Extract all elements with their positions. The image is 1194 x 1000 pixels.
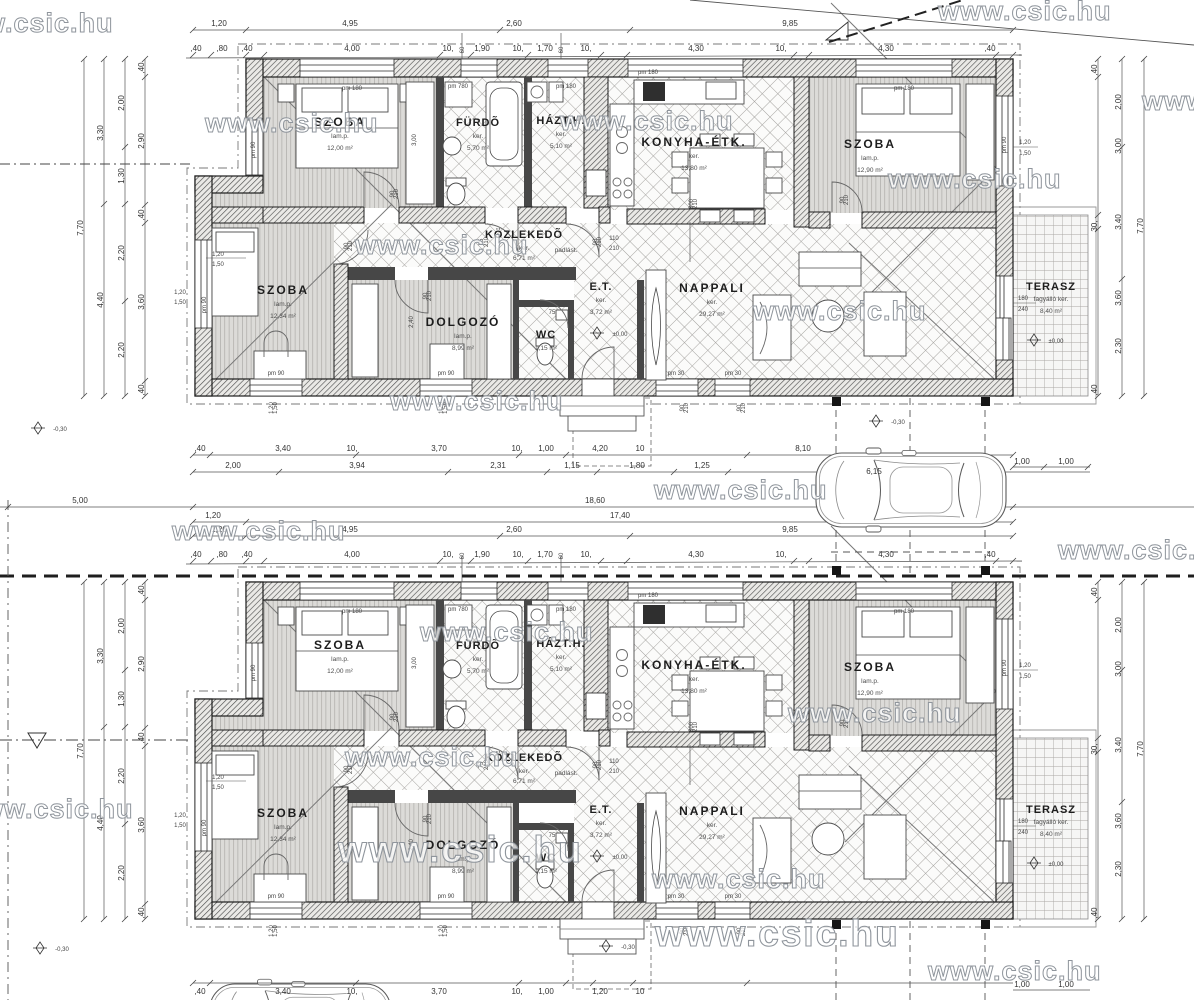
level marks (590, 327, 604, 339)
svg-text:3,00: 3,00 (1114, 138, 1123, 154)
svg-text:pm 30: pm 30 (725, 371, 742, 377)
furniture: bedroom 1 (296, 84, 398, 168)
svg-text:210: 210 (427, 290, 433, 301)
carport (831, 398, 990, 575)
svg-text:210: 210 (348, 240, 354, 251)
svg-text:10,: 10, (512, 44, 523, 53)
svg-text:pm 780: pm 780 (448, 84, 469, 90)
svg-text:www.csic.hu: www.csic.hu (651, 864, 826, 894)
svg-text:pm 90: pm 90 (202, 296, 208, 313)
exterior walls (246, 59, 1013, 77)
svg-text:17,40: 17,40 (610, 511, 631, 520)
svg-text:3,00: 3,00 (412, 134, 418, 146)
svg-text:ker.: ker. (707, 299, 718, 306)
svg-text:±0,00: ±0,00 (613, 332, 629, 338)
svg-text:1,50: 1,50 (1019, 151, 1031, 157)
svg-text:2,20: 2,20 (117, 245, 126, 261)
furniture: bedroom 3 (212, 228, 258, 316)
windows: right wall (996, 96, 1013, 186)
svg-text:w.csic.hu: w.csic.hu (0, 8, 114, 38)
bottom partial car (210, 979, 391, 1000)
site line top-left (0, 163, 193, 165)
svg-text:7,70: 7,70 (76, 220, 85, 236)
svg-text:NAPPALI: NAPPALI (679, 281, 745, 295)
svg-text:ker.: ker. (596, 297, 607, 304)
svg-text:KONYHA-ÉTK.: KONYHA-ÉTK. (641, 134, 746, 149)
svg-text:10,: 10, (346, 987, 357, 996)
svg-text:3,40: 3,40 (275, 987, 291, 996)
entry porch dashed outline (573, 398, 651, 466)
svg-text:-0,30: -0,30 (53, 427, 67, 433)
carport below bottom unit (836, 921, 985, 1000)
svg-text:1,50: 1,50 (174, 300, 186, 306)
svg-text:110: 110 (609, 236, 619, 242)
svg-text:12,00 m²: 12,00 m² (327, 145, 353, 152)
svg-text:210: 210 (597, 236, 603, 247)
svg-text:5,70 m²: 5,70 m² (467, 145, 490, 152)
svg-text:pm 30: pm 30 (668, 371, 685, 377)
svg-text:210: 210 (741, 402, 747, 413)
svg-text:3,40: 3,40 (1114, 214, 1123, 230)
furniture: wc (536, 338, 554, 346)
svg-text:2,60: 2,60 (506, 19, 522, 28)
svg-text:pm 180: pm 180 (638, 70, 659, 76)
svg-text:30,: 30, (1090, 220, 1099, 231)
svg-text:www.csic.hu: www.csic.hu (1141, 86, 1194, 116)
eave outline (187, 44, 1020, 404)
svg-text:1,15: 1,15 (564, 461, 580, 470)
svg-text:SZOBA: SZOBA (257, 283, 309, 297)
svg-text:7,70: 7,70 (1136, 218, 1145, 234)
furniture: dolgozo (352, 284, 378, 377)
svg-text:8,10: 8,10 (795, 444, 811, 453)
svg-text:,40: ,40 (194, 444, 206, 453)
svg-text:10,: 10, (442, 44, 453, 53)
roof diagonals (248, 61, 575, 388)
svg-text:,80: ,80 (216, 44, 228, 53)
svg-text:-0,30: -0,30 (891, 420, 905, 426)
svg-text:www.csic.hu: www.csic.hu (752, 296, 927, 326)
svg-text:210: 210 (844, 194, 850, 205)
svg-text:,40: ,40 (1090, 384, 1099, 396)
svg-text:,40: ,40 (137, 209, 146, 221)
svg-text:1,20: 1,20 (212, 252, 224, 258)
svg-text:4,95: 4,95 (342, 19, 358, 28)
svg-text:2,00: 2,00 (117, 95, 126, 111)
svg-text:,40: ,40 (984, 44, 996, 53)
svg-text:padlást.: padlást. (555, 247, 578, 254)
svg-text:±0,00: ±0,00 (1049, 339, 1065, 345)
svg-text:180: 180 (1018, 296, 1029, 302)
svg-text:FÜRDÕ: FÜRDÕ (456, 116, 500, 129)
windows: top wall (195, 59, 1013, 396)
svg-text:10,: 10, (775, 44, 786, 53)
svg-text:TERASZ: TERASZ (1026, 281, 1076, 293)
svg-text:pm 90: pm 90 (268, 371, 285, 377)
svg-text:1,00: 1,00 (538, 987, 554, 996)
furniture: hazt (527, 82, 547, 102)
svg-text:pm 90: pm 90 (251, 141, 257, 158)
svg-text:10,: 10, (511, 987, 522, 996)
svg-text:pm 90: pm 90 (1002, 136, 1008, 153)
svg-text:9,85: 9,85 (782, 19, 798, 28)
svg-text:1,20: 1,20 (174, 290, 186, 296)
svg-text:SZOBA: SZOBA (844, 137, 896, 151)
svg-text:3,72 m²: 3,72 m² (590, 309, 613, 316)
svg-text:1,20: 1,20 (211, 19, 227, 28)
svg-text:pm 180: pm 180 (342, 86, 363, 92)
svg-text:3,94: 3,94 (349, 461, 365, 470)
section line A with triangle (0, 739, 190, 741)
svg-text:,40: ,40 (1090, 64, 1099, 76)
svg-text:pm 90: pm 90 (438, 371, 455, 377)
svg-text:1,00: 1,00 (1014, 457, 1030, 466)
top dimension rows (186, 30, 1022, 58)
svg-text:13,80 m²: 13,80 m² (681, 165, 707, 172)
furniture: kitchen (634, 80, 744, 104)
svg-text:,40: ,40 (190, 44, 202, 53)
UNIT PLAN GROUP (placeholder, filled below) (76, 3, 1147, 466)
svg-text:1,25: 1,25 (694, 461, 710, 470)
right dimension chains (1098, 59, 1144, 396)
svg-text:29,27 m²: 29,27 m² (699, 311, 725, 318)
svg-text:fagyálló ker.: fagyálló ker. (1034, 296, 1069, 303)
bottom page dimension row (193, 982, 1013, 984)
entry steps (560, 396, 644, 416)
svg-text:pm 180: pm 180 (894, 86, 915, 92)
svg-text:2,20: 2,20 (117, 342, 126, 358)
svg-text:3,70: 3,70 (431, 444, 447, 453)
svg-text:1,00: 1,00 (1058, 457, 1074, 466)
svg-text:2,90: 2,90 (137, 133, 146, 149)
svg-text:ker.: ker. (473, 133, 484, 140)
svg-text:,40: ,40 (241, 44, 253, 53)
car between units (816, 448, 1006, 532)
svg-text:8,40 m²: 8,40 m² (1040, 308, 1063, 315)
svg-text:www.csic.hu: www.csic.hu (1057, 535, 1194, 565)
svg-text:10,: 10, (580, 44, 591, 53)
furniture: living room (646, 270, 666, 380)
svg-text:-0,30: -0,30 (621, 945, 635, 951)
svg-text:lam.p.: lam.p. (274, 301, 292, 308)
svg-text:1,50: 1,50 (212, 262, 224, 268)
svg-text:1,20: 1,20 (1019, 140, 1031, 146)
svg-text:240: 240 (1018, 307, 1029, 313)
svg-text:3,70: 3,70 (431, 987, 447, 996)
svg-text:www.csic.hu: www.csic.hu (927, 956, 1102, 986)
svg-text:4,30: 4,30 (878, 44, 894, 53)
svg-text:8,99 m²: 8,99 m² (452, 345, 475, 352)
svg-text:12,34 m²: 12,34 m² (270, 313, 296, 320)
door arcs (364, 172, 399, 207)
svg-text:WC: WC (536, 329, 556, 341)
svg-text:210: 210 (693, 198, 699, 209)
svg-text:www.csic.hu: www.csic.hu (354, 230, 529, 260)
svg-text:-0,30: -0,30 (55, 947, 69, 953)
svg-text:2,31: 2,31 (490, 461, 506, 470)
svg-text:1,70: 1,70 (537, 44, 553, 53)
svg-text:www.csic.hu: www.csic.hu (559, 106, 734, 136)
svg-text:www.csic.hu: www.csic.hu (0, 794, 134, 824)
svg-text:lam.p.: lam.p. (454, 333, 472, 340)
svg-text:ker.: ker. (689, 153, 700, 160)
svg-text:www.csic.hu: www.csic.hu (887, 164, 1062, 194)
svg-text:,40: ,40 (137, 62, 146, 74)
svg-text:5,00: 5,00 (72, 496, 88, 505)
svg-text:E.T.: E.T. (590, 281, 613, 293)
svg-text:www.csic.hu: www.csic.hu (171, 516, 346, 546)
left site vertical dashed (7, 500, 9, 1000)
svg-text:www.csic.hu: www.csic.hu (787, 698, 962, 728)
svg-text:5,10 m²: 5,10 m² (550, 143, 573, 150)
svg-text:12,90 m²: 12,90 m² (857, 167, 883, 174)
svg-text:www.csic.hu: www.csic.hu (204, 108, 379, 138)
site diagonal top-right (690, 0, 1194, 45)
svg-text:3,60: 3,60 (137, 294, 146, 310)
svg-text:3,40: 3,40 (275, 444, 291, 453)
svg-text:18,60: 18,60 (585, 496, 606, 505)
windows: left walls (246, 120, 263, 175)
svg-text:www.csic.hu: www.csic.hu (337, 829, 583, 870)
roof arrow triangle (826, 22, 848, 40)
misc level marks (31, 422, 45, 434)
left dimension chains (84, 59, 145, 396)
svg-text:1,15 m²: 1,15 m² (535, 345, 558, 352)
svg-text:lam.p.: lam.p. (861, 155, 879, 162)
svg-text:10: 10 (636, 444, 645, 453)
svg-text:4,40: 4,40 (96, 292, 105, 308)
furniture: bathroom (486, 82, 522, 166)
svg-text:,40: ,40 (137, 384, 146, 396)
svg-text:1,30: 1,30 (117, 168, 126, 184)
svg-text:4,30: 4,30 (688, 44, 704, 53)
svg-text:1,50: 1,50 (273, 402, 279, 414)
svg-text:10: 10 (636, 987, 645, 996)
svg-text:2,40: 2,40 (409, 316, 415, 328)
svg-text:1,80: 1,80 (629, 461, 645, 470)
svg-text:6,15: 6,15 (866, 467, 882, 476)
svg-text:3,30: 3,30 (96, 125, 105, 141)
svg-text:2,00: 2,00 (1114, 94, 1123, 110)
svg-text:1,20: 1,20 (592, 987, 608, 996)
site boundary dashed line between units (0, 575, 1194, 578)
svg-text:2,30: 2,30 (1114, 338, 1123, 354)
windows: bottom wall (250, 379, 302, 396)
furniture: bedroom 2 (856, 84, 960, 176)
svg-text:210: 210 (609, 246, 620, 252)
dimension row A below top unit (0, 455, 1194, 522)
svg-text:10,: 10, (346, 444, 357, 453)
svg-text:www.csic.hu: www.csic.hu (344, 742, 519, 772)
svg-text:4,20: 4,20 (592, 444, 608, 453)
svg-text:3,60: 3,60 (1114, 290, 1123, 306)
svg-text:210: 210 (394, 188, 400, 199)
svg-text:pm 180: pm 180 (556, 84, 577, 90)
svg-text:1,00: 1,00 (538, 444, 554, 453)
interior walls (436, 77, 444, 208)
svg-text:4,00: 4,00 (344, 44, 360, 53)
svg-text:1,90: 1,90 (474, 44, 490, 53)
svg-text:75: 75 (549, 310, 556, 316)
svg-text:www.csic.hu: www.csic.hu (654, 913, 900, 954)
svg-text:www.csic.hu: www.csic.hu (653, 475, 828, 505)
svg-text:60: 60 (460, 46, 466, 53)
svg-text:www.csic.hu: www.csic.hu (389, 386, 564, 416)
svg-text:DOLGOZÓ: DOLGOZÓ (426, 314, 501, 329)
floors (263, 77, 436, 208)
svg-text:210: 210 (684, 402, 690, 413)
svg-text:2,00: 2,00 (225, 461, 241, 470)
svg-text:www.csic.hu: www.csic.hu (419, 617, 594, 647)
svg-text:60: 60 (559, 46, 565, 53)
svg-text:,40: ,40 (194, 987, 206, 996)
svg-text:www.csic.hu: www.csic.hu (937, 0, 1112, 26)
svg-text:10,: 10, (511, 444, 522, 453)
